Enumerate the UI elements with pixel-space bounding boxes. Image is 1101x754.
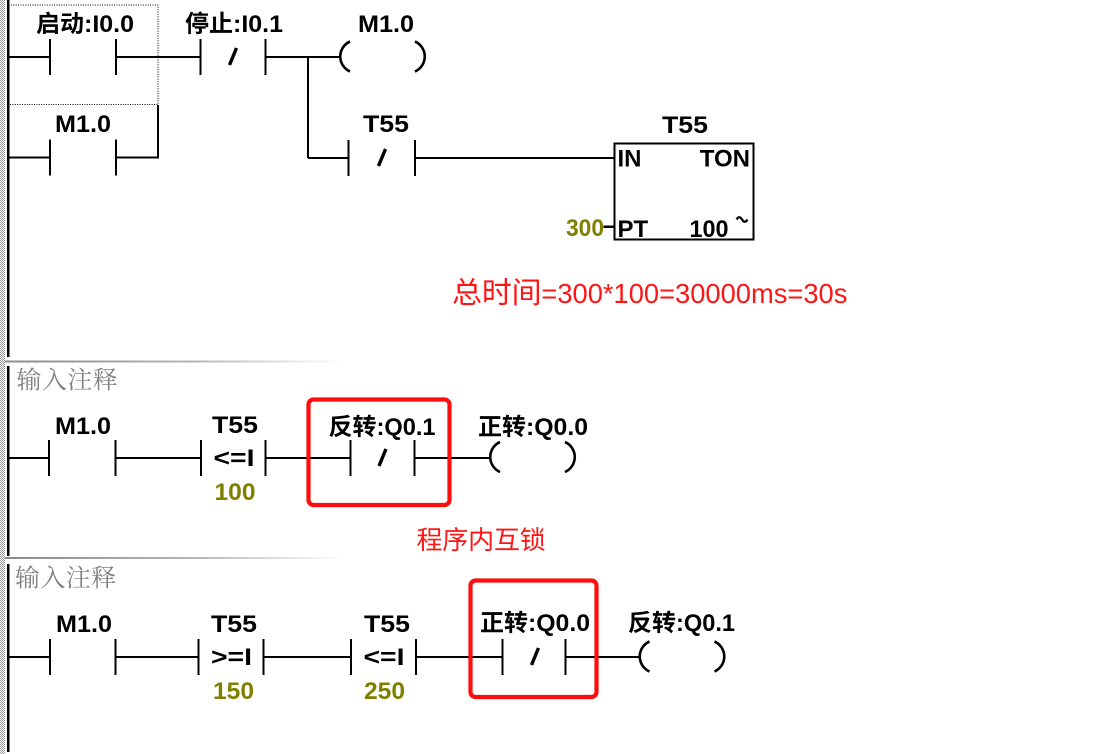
svg-text:T55: T55 [211,611,257,638]
wire rail to M1.0 (net2) [9,457,48,459]
power rail network 2 [7,366,10,556]
branch riser M1.0 [157,105,159,158]
red note 总时间=300*100=30000ms=30s [453,278,480,305]
svg-text:T55: T55 [363,111,409,138]
comment 输入注释 (network 3) [16,565,40,588]
wire junction to T55 contact [308,157,348,159]
svg-text:100: 100 [690,216,729,243]
red note 程序内互锁 [417,528,441,552]
svg-text:100: 100 [215,479,256,506]
power rail network 1 [7,0,10,357]
wire M1.0 to comparator (net2) [117,457,201,459]
contact M1.0 (net2) [48,440,50,476]
svg-text:<=I: <=I [364,644,405,671]
power rail network 3 [7,564,10,752]
wire M1.0 to riser [117,157,159,159]
svg-text:<=I: <=I [214,445,255,472]
contact T55 (NC) [348,140,350,176]
wire I0.1 to coil M1.0 [267,56,342,58]
red highlight box (net2) [309,400,450,506]
svg-text:IN: IN [618,146,642,173]
contact M1.0 (net3) [49,639,51,675]
wire M1.0 to comparator1 (net3) [117,656,198,658]
contact M1.0 (NO) [49,140,51,176]
label 启动:I0.0 [37,12,58,35]
contact 反转:Q0.1 (NC) [350,440,352,476]
svg-text:TON: TON [700,146,750,173]
svg-text:M1.0: M1.0 [55,413,111,440]
svg-text::Q0.1: :Q0.1 [676,610,735,637]
timer box T55 TON [615,144,754,240]
label 反转:Q0.1 (net3) [629,611,651,633]
node junction riser [307,57,309,158]
wire rail to contact I0.0 [9,56,49,58]
svg-text::Q0.0: :Q0.0 [528,610,590,637]
coil 正转:Q0.0 [490,442,500,472]
network separator line 1 [5,361,345,363]
svg-text:=300*100=30000ms=30s: =300*100=30000ms=30s [541,278,847,309]
wire Q0.0 contact to coil Q0.1 [567,656,641,658]
svg-text::Q0.0: :Q0.0 [526,414,588,441]
NC slash T55 [379,149,386,166]
svg-text:T55: T55 [364,611,410,638]
label 正转:Q0.0 (net3) [481,612,503,632]
label 停止:I0.1 [186,11,209,34]
svg-text:150: 150 [213,678,254,705]
red highlight box (net3) [471,581,597,698]
svg-text:PT: PT [618,216,649,243]
svg-text:300: 300 [566,215,604,242]
wire rail to M1.0 (net3) [9,656,49,658]
comparator contact T55<=100 [200,440,202,476]
wire 300 to PT [604,226,615,229]
tilde time-base mark [737,217,748,222]
contact 正转:Q0.0 (NC) [502,639,504,675]
network separator line 2 [5,557,345,559]
coil M1.0 [340,42,350,72]
comment 输入注释 (network 2) [17,367,41,390]
window left edge hatch [0,0,5,754]
coil 反转:Q0.1 [640,642,650,672]
svg-text::I0.1: :I0.1 [233,11,283,38]
svg-text::Q0.1: :Q0.1 [377,414,436,441]
wire comparator2 to Q0.0 contact [417,656,502,658]
wire comparator1 to comparator2 [265,656,351,658]
svg-text:250: 250 [364,678,405,705]
svg-text:M1.0: M1.0 [55,111,111,138]
contact 停止:I0.1 (NC) [200,39,202,75]
selection dotted box [9,5,159,105]
svg-text:M1.0: M1.0 [56,611,112,638]
wire rail to contact M1.0 [9,157,49,159]
contact 启动:I0.0 (NO) [49,39,51,75]
svg-text:M1.0: M1.0 [358,11,414,38]
wire T55 contact to timer IN [416,157,614,159]
svg-text::I0.0: :I0.0 [84,11,134,38]
comparator contact T55<=250 [350,639,352,675]
svg-text:T55: T55 [662,112,708,139]
NC slash I0.1 [230,48,237,65]
label 反转:Q0.1 [329,415,351,437]
NC slash Q0.0 [532,648,539,665]
NC slash Q0.1 [379,449,386,466]
wire I0.0 to I0.1 [117,56,200,58]
label 正转:Q0.0 [479,416,501,436]
wire comparator to Q0.1 contact [267,457,351,459]
svg-text:>=I: >=I [211,644,252,671]
comparator contact T55>=150 [198,639,200,675]
wire Q0.1 contact to coil Q0.0 [416,457,492,459]
svg-text:T55: T55 [212,412,258,439]
